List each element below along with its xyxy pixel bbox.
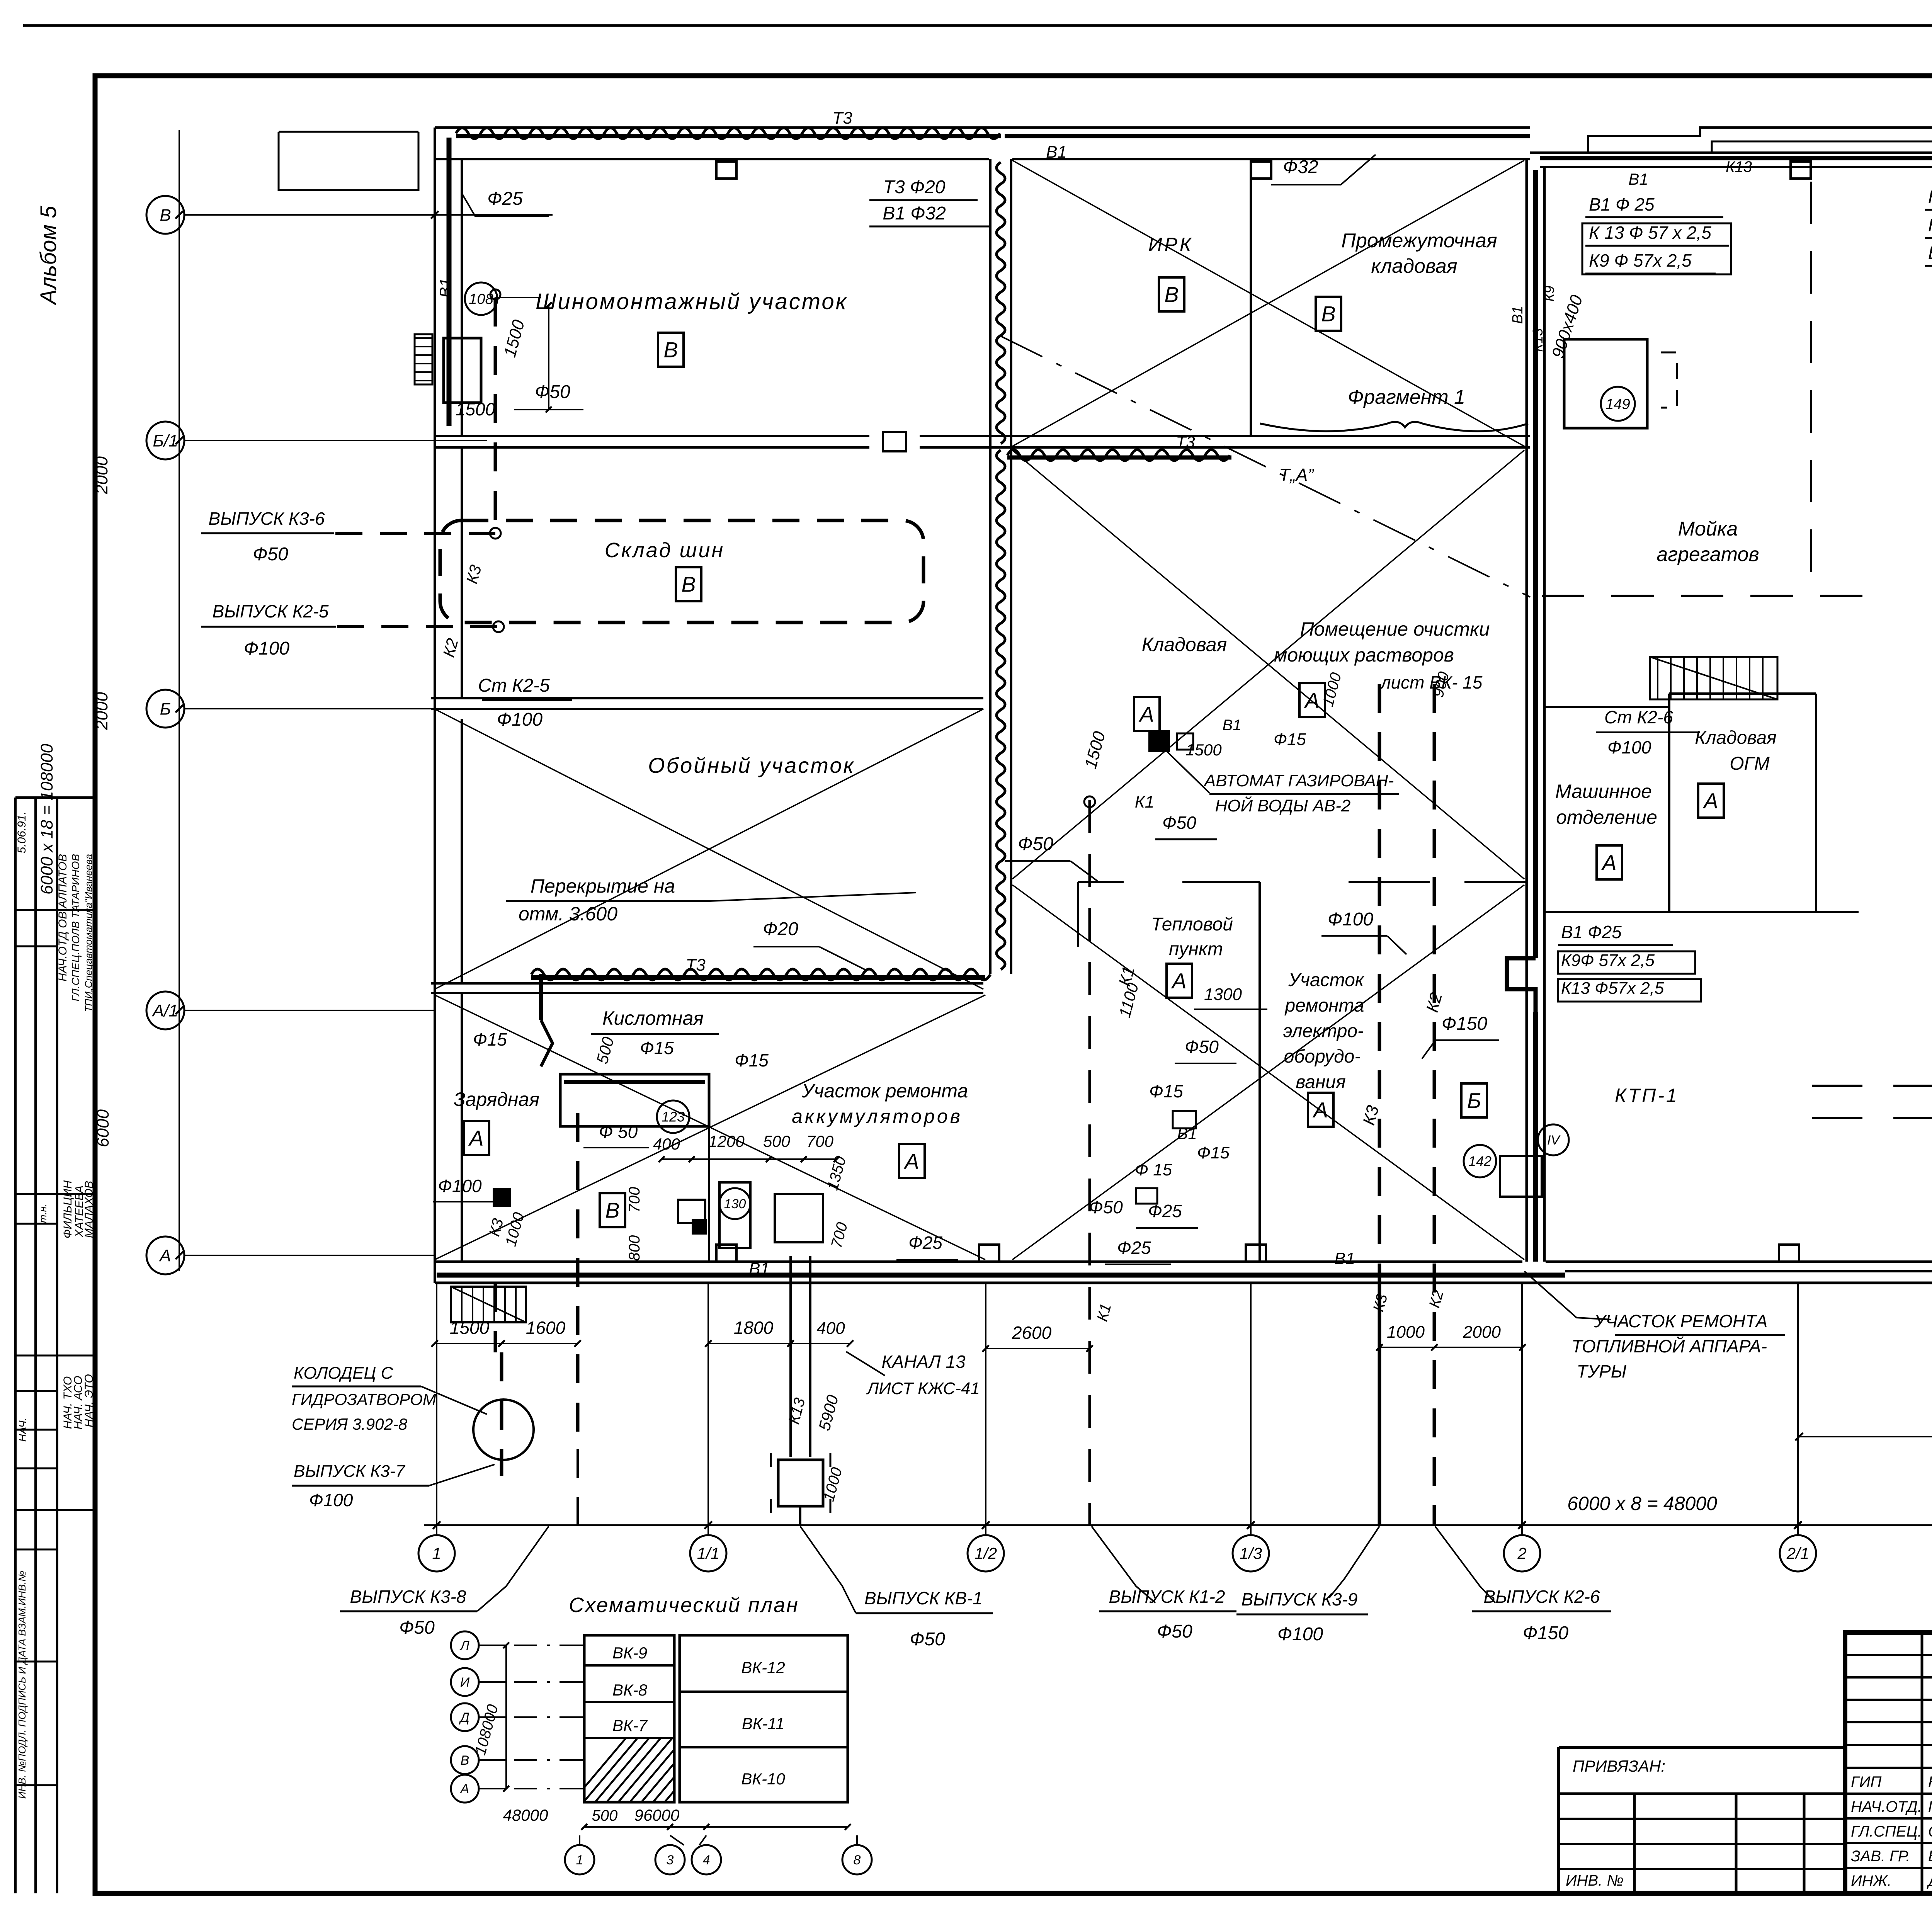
- svg-text:ВК-12: ВК-12: [741, 1658, 785, 1677]
- svg-text:5.06.91.: 5.06.91.: [15, 811, 28, 853]
- svg-text:ИНВ. №ПОДЛ. ПОДПИСЬ И ДАТА ВЗА: ИНВ. №ПОДЛ. ПОДПИСЬ И ДАТА ВЗАМ.ИНВ.№: [16, 1571, 28, 1799]
- svg-text:Ф50: Ф50: [1157, 1621, 1192, 1642]
- svg-text:ремонта: ремонта: [1284, 995, 1364, 1016]
- svg-text:Т3: Т3: [685, 956, 706, 975]
- svg-text:ТУРЫ: ТУРЫ: [1577, 1361, 1627, 1381]
- svg-text:142: 142: [1468, 1153, 1492, 1169]
- svg-text:2/1: 2/1: [1786, 1544, 1809, 1563]
- svg-text:Тепловой: Тепловой: [1151, 914, 1233, 935]
- svg-text:1/1: 1/1: [697, 1544, 719, 1563]
- svg-text:НАЧ.ОТД ОВ АЛПАТОВ: НАЧ.ОТД ОВ АЛПАТОВ: [56, 854, 69, 981]
- svg-text:Б: Б: [160, 699, 171, 718]
- svg-text:1800: 1800: [734, 1318, 774, 1338]
- svg-text:1300: 1300: [1204, 985, 1242, 1004]
- svg-text:А: А: [1312, 1098, 1328, 1122]
- svg-text:Ф50: Ф50: [1089, 1197, 1123, 1217]
- svg-text:В1 Ф32: В1 Ф32: [883, 203, 946, 224]
- svg-text:К13: К13: [1726, 158, 1752, 175]
- svg-text:К13 Ф57х 2,5: К13 Ф57х 2,5: [1928, 215, 1932, 235]
- svg-text:А: А: [1171, 969, 1186, 993]
- svg-text:КОРОСТЕЛЕВ: КОРОСТЕЛЕВ: [1928, 1774, 1932, 1791]
- svg-text:ВЫПУСК К3-9: ВЫПУСК К3-9: [1242, 1589, 1358, 1609]
- svg-text:Альбом 5: Альбом 5: [36, 206, 61, 306]
- svg-text:ПРИВЯЗАН:: ПРИВЯЗАН:: [1573, 1757, 1665, 1775]
- svg-text:В1 Ф15: В1 Ф15: [1928, 243, 1932, 263]
- svg-text:К9 Ф 57х 2,5: К9 Ф 57х 2,5: [1589, 250, 1692, 270]
- svg-text:В: В: [663, 338, 678, 362]
- svg-text:И: И: [460, 1675, 470, 1690]
- svg-text:В1: В1: [1177, 1124, 1197, 1143]
- svg-text:электро-: электро-: [1283, 1021, 1364, 1041]
- svg-text:УЧАСТОК РЕМОНТА: УЧАСТОК РЕМОНТА: [1594, 1311, 1768, 1331]
- svg-text:1600: 1600: [526, 1318, 566, 1338]
- svg-text:НОЙ ВОДЫ АВ-2: НОЙ ВОДЫ АВ-2: [1215, 796, 1351, 815]
- svg-text:500: 500: [592, 1807, 618, 1824]
- svg-text:130: 130: [724, 1197, 746, 1211]
- svg-text:500: 500: [763, 1132, 791, 1150]
- svg-text:48000: 48000: [503, 1806, 548, 1824]
- svg-text:Б: Б: [1467, 1088, 1481, 1113]
- svg-text:А: А: [1304, 688, 1319, 713]
- svg-text:К9 Ф 57х2,5: К9 Ф 57х2,5: [1928, 187, 1932, 207]
- svg-text:IV: IV: [1547, 1133, 1561, 1148]
- svg-text:Перекрытие на: Перекрытие на: [531, 875, 675, 897]
- svg-text:Ф15: Ф15: [640, 1038, 674, 1058]
- svg-text:БОРОДКИНА: БОРОДКИНА: [1928, 1848, 1932, 1865]
- svg-text:Л: Л: [459, 1638, 469, 1653]
- svg-text:ВЫПУСК К3-8: ВЫПУСК К3-8: [350, 1587, 466, 1607]
- svg-text:Ф100: Ф100: [438, 1176, 482, 1196]
- svg-text:2000: 2000: [92, 456, 111, 495]
- svg-text:ВЫПУСК К2-5: ВЫПУСК К2-5: [213, 601, 329, 621]
- svg-text:Ф15: Ф15: [1149, 1081, 1183, 1101]
- svg-text:Фрагмент 1: Фрагмент 1: [1348, 386, 1465, 408]
- svg-text:2: 2: [1517, 1544, 1526, 1563]
- svg-text:Машинное: Машинное: [1555, 781, 1652, 802]
- svg-text:Обойный участок: Обойный участок: [648, 753, 855, 777]
- svg-text:ВК-8: ВК-8: [612, 1681, 648, 1699]
- svg-text:В: В: [160, 206, 171, 224]
- svg-text:ВЫПУСК К1-2: ВЫПУСК К1-2: [1109, 1587, 1225, 1607]
- svg-text:А: А: [460, 1782, 469, 1796]
- svg-text:400: 400: [653, 1135, 680, 1153]
- svg-text:аккумуляторов: аккумуляторов: [792, 1105, 963, 1127]
- svg-text:700: 700: [806, 1132, 834, 1150]
- svg-text:Ф50: Ф50: [1185, 1037, 1219, 1057]
- svg-text:Д: Д: [459, 1710, 469, 1725]
- svg-text:ГИП: ГИП: [1851, 1774, 1882, 1791]
- svg-text:Ф50: Ф50: [399, 1617, 435, 1638]
- svg-text:ВЫПУСК КВ-1: ВЫПУСК КВ-1: [864, 1588, 983, 1608]
- svg-text:А/1: А/1: [151, 1001, 178, 1020]
- svg-text:Кладовая: Кладовая: [1142, 634, 1227, 655]
- svg-text:Ф100: Ф100: [244, 638, 290, 659]
- svg-text:1: 1: [576, 1853, 583, 1867]
- svg-text:Ф100: Ф100: [497, 709, 543, 730]
- svg-text:Ф50: Ф50: [1018, 834, 1053, 854]
- svg-text:Ф150: Ф150: [1523, 1623, 1569, 1643]
- svg-text:В: В: [1164, 282, 1179, 307]
- svg-text:Ф25: Ф25: [1148, 1201, 1182, 1221]
- svg-text:ИНВ. №: ИНВ. №: [1566, 1872, 1624, 1889]
- svg-text:ВК-9: ВК-9: [612, 1644, 647, 1662]
- svg-text:Ф 15: Ф 15: [1135, 1160, 1172, 1179]
- svg-text:Склад шин: Склад шин: [605, 539, 724, 562]
- svg-text:А: А: [1601, 850, 1616, 875]
- svg-text:Ф100: Ф100: [1607, 737, 1651, 757]
- svg-text:т.н.: т.н.: [37, 1204, 49, 1223]
- svg-text:Кислотная: Кислотная: [602, 1007, 704, 1029]
- svg-text:Т3: Т3: [832, 109, 852, 128]
- svg-text:В1 Ф 25: В1 Ф 25: [1589, 194, 1655, 214]
- svg-text:Ф50: Ф50: [253, 544, 288, 565]
- svg-text:Мойка: Мойка: [1678, 518, 1738, 540]
- svg-text:ВК-11: ВК-11: [742, 1714, 784, 1733]
- svg-text:149: 149: [1605, 396, 1630, 412]
- svg-text:800: 800: [626, 1235, 643, 1261]
- svg-text:НАЧ.ОТД.: НАЧ.ОТД.: [1851, 1798, 1922, 1815]
- svg-text:В: В: [1321, 302, 1335, 326]
- svg-text:ГЛ.СПЕЦ.: ГЛ.СПЕЦ.: [1851, 1823, 1922, 1840]
- svg-text:В: В: [605, 1198, 619, 1223]
- svg-text:Т3 Ф20: Т3 Ф20: [883, 177, 946, 197]
- svg-text:ИНЖ.: ИНЖ.: [1851, 1872, 1891, 1889]
- svg-text:Шиномонтажный участок: Шиномонтажный участок: [536, 289, 848, 314]
- svg-text:КАНАЛ 13: КАНАЛ 13: [881, 1352, 966, 1372]
- svg-text:Ф15: Ф15: [1274, 730, 1306, 749]
- svg-text:Ф100: Ф100: [309, 1490, 353, 1510]
- svg-text:СЕМЕНЦОВА: СЕМЕНЦОВА: [1928, 1823, 1932, 1840]
- svg-text:Участок: Участок: [1288, 970, 1364, 990]
- svg-text:агрегатов: агрегатов: [1656, 543, 1759, 566]
- svg-text:Ф15: Ф15: [1197, 1143, 1230, 1162]
- svg-text:123: 123: [662, 1109, 685, 1125]
- svg-text:В: В: [681, 572, 696, 597]
- svg-text:К13 Ф57х 2,5: К13 Ф57х 2,5: [1561, 979, 1664, 998]
- svg-text:6000 х 8 = 48000: 6000 х 8 = 48000: [1567, 1493, 1717, 1514]
- svg-text:МАЛАХОВ: МАЛАХОВ: [83, 1181, 95, 1238]
- svg-text:Участок ремонта: Участок ремонта: [801, 1080, 968, 1102]
- svg-text:8: 8: [854, 1853, 861, 1867]
- svg-text:В: В: [461, 1753, 469, 1768]
- svg-text:3: 3: [667, 1853, 674, 1867]
- svg-text:К 13 Ф 57 х 2,5: К 13 Ф 57 х 2,5: [1589, 223, 1711, 243]
- svg-text:отделение: отделение: [1556, 806, 1657, 828]
- svg-text:1500: 1500: [456, 399, 495, 419]
- svg-text:1000: 1000: [1387, 1323, 1425, 1342]
- svg-text:НАЧ. ЭТО: НАЧ. ЭТО: [83, 1374, 95, 1427]
- svg-text:ОГМ: ОГМ: [1730, 753, 1769, 774]
- svg-text:К9: К9: [1541, 286, 1557, 301]
- svg-text:К1: К1: [1135, 793, 1154, 811]
- svg-text:В1: В1: [1223, 717, 1242, 734]
- svg-text:А: А: [903, 1149, 919, 1173]
- svg-text:А: А: [158, 1246, 171, 1265]
- svg-text:ГЛ.СПЕЦ.ПОЛВ ТАТАРИНОВ: ГЛ.СПЕЦ.ПОЛВ ТАТАРИНОВ: [70, 854, 82, 1002]
- svg-text:ВЫПУСК К3-6: ВЫПУСК К3-6: [209, 509, 325, 529]
- svg-text:Ф15: Ф15: [473, 1029, 507, 1049]
- svg-text:Ф100: Ф100: [1277, 1624, 1323, 1645]
- svg-text:ФИЛЬЦИН: ФИЛЬЦИН: [61, 1180, 74, 1239]
- svg-text:В1: В1: [436, 278, 454, 298]
- svg-text:вания: вания: [1296, 1072, 1345, 1092]
- svg-text:1500: 1500: [1185, 741, 1222, 759]
- svg-text:700: 700: [626, 1187, 643, 1213]
- svg-text:6000: 6000: [94, 1109, 112, 1147]
- svg-text:Ст К2-5: Ст К2-5: [478, 675, 550, 696]
- svg-text:пункт: пункт: [1169, 939, 1223, 959]
- svg-text:оборудо-: оборудо-: [1284, 1046, 1361, 1067]
- svg-text:Ст К2-6: Ст К2-6: [1604, 707, 1673, 727]
- svg-text:В1: В1: [749, 1259, 770, 1278]
- svg-text:Ф25: Ф25: [908, 1233, 942, 1253]
- svg-text:Ф50: Ф50: [910, 1629, 945, 1650]
- svg-text:ВК-10: ВК-10: [741, 1770, 785, 1788]
- svg-text:Ф150: Ф150: [1442, 1014, 1488, 1034]
- svg-text:В1: В1: [1510, 306, 1526, 324]
- svg-text:96000: 96000: [634, 1806, 680, 1824]
- svg-text:В1: В1: [1628, 170, 1648, 188]
- svg-text:А: А: [1138, 702, 1154, 726]
- svg-text:ВЫПУСК К3-7: ВЫПУСК К3-7: [294, 1462, 405, 1481]
- svg-text:Т3: Т3: [1176, 433, 1195, 451]
- svg-text:ТПИ„Спецавтоматика"Иванеева: ТПИ„Спецавтоматика"Иванеева: [83, 854, 94, 1012]
- svg-text:1/2: 1/2: [975, 1544, 997, 1563]
- svg-text:ИРК: ИРК: [1148, 234, 1194, 255]
- svg-text:Ф20: Ф20: [763, 919, 798, 939]
- svg-text:Кладовая: Кладовая: [1695, 728, 1777, 748]
- svg-text:Ф15: Ф15: [735, 1050, 769, 1070]
- svg-text:А: А: [1702, 789, 1718, 813]
- svg-text:6000 х 18 = 108000: 6000 х 18 = 108000: [37, 743, 56, 895]
- svg-text:А: А: [468, 1126, 483, 1150]
- svg-text:ВЫПУСК К2-6: ВЫПУСК К2-6: [1484, 1587, 1600, 1607]
- svg-text:Ф25: Ф25: [1117, 1238, 1151, 1258]
- svg-text:В1: В1: [1046, 143, 1067, 162]
- svg-text:ВК-7: ВК-7: [612, 1716, 648, 1735]
- svg-text:1200: 1200: [708, 1132, 745, 1150]
- svg-text:НАЧ.: НАЧ.: [17, 1417, 29, 1442]
- svg-text:АВТОМАТ ГАЗИРОВАН-: АВТОМАТ ГАЗИРОВАН-: [1203, 771, 1394, 790]
- svg-text:В1: В1: [1334, 1249, 1355, 1268]
- svg-text:Схематический план: Схематический план: [569, 1594, 799, 1617]
- svg-text:ЛИСТ КЖС-41: ЛИСТ КЖС-41: [866, 1379, 980, 1398]
- svg-text:Ф 50: Ф 50: [599, 1122, 638, 1142]
- svg-text:К9Ф 57х 2,5: К9Ф 57х 2,5: [1561, 951, 1655, 970]
- svg-text:Ф100: Ф100: [1328, 909, 1374, 930]
- svg-text:ГВОЗДЕВ: ГВОЗДЕВ: [1928, 1798, 1932, 1815]
- svg-text:В1 Ф25: В1 Ф25: [1561, 922, 1622, 942]
- svg-text:2000: 2000: [1463, 1323, 1501, 1342]
- svg-text:отм. 3.600: отм. 3.600: [519, 903, 617, 925]
- svg-text:Помещение очистки: Помещение очистки: [1300, 618, 1490, 640]
- svg-text:ГИДРОЗАТВОРОМ: ГИДРОЗАТВОРОМ: [292, 1390, 436, 1408]
- svg-text:Ф50: Ф50: [535, 382, 570, 402]
- svg-text:1: 1: [432, 1544, 441, 1563]
- svg-text:Т„А”: Т„А”: [1279, 465, 1315, 485]
- svg-text:КОЛОДЕЦ С: КОЛОДЕЦ С: [294, 1364, 394, 1383]
- svg-text:кладовая: кладовая: [1371, 255, 1457, 277]
- svg-text:КТП-1: КТП-1: [1615, 1085, 1679, 1106]
- svg-text:Ф50: Ф50: [1162, 813, 1196, 833]
- svg-text:ЗАВ. ГР.: ЗАВ. ГР.: [1851, 1848, 1910, 1865]
- svg-text:Ф32: Ф32: [1283, 157, 1318, 177]
- svg-text:1/3: 1/3: [1240, 1544, 1262, 1563]
- svg-text:Б/1: Б/1: [153, 431, 178, 450]
- svg-text:2600: 2600: [1012, 1323, 1052, 1343]
- svg-text:Промежуточная: Промежуточная: [1341, 230, 1497, 252]
- svg-text:СЕРИЯ 3.902-8: СЕРИЯ 3.902-8: [292, 1415, 408, 1433]
- svg-text:Зарядная: Зарядная: [454, 1088, 539, 1110]
- svg-text:400: 400: [816, 1319, 845, 1338]
- svg-text:Ф25: Ф25: [487, 189, 523, 209]
- svg-text:2000: 2000: [92, 692, 111, 730]
- svg-text:моющих растворов: моющих растворов: [1274, 644, 1454, 666]
- svg-text:ТОПЛИВНОЙ АППАРА-: ТОПЛИВНОЙ АППАРА-: [1571, 1336, 1767, 1356]
- svg-text:К13: К13: [1530, 328, 1546, 352]
- svg-text:4: 4: [703, 1853, 710, 1867]
